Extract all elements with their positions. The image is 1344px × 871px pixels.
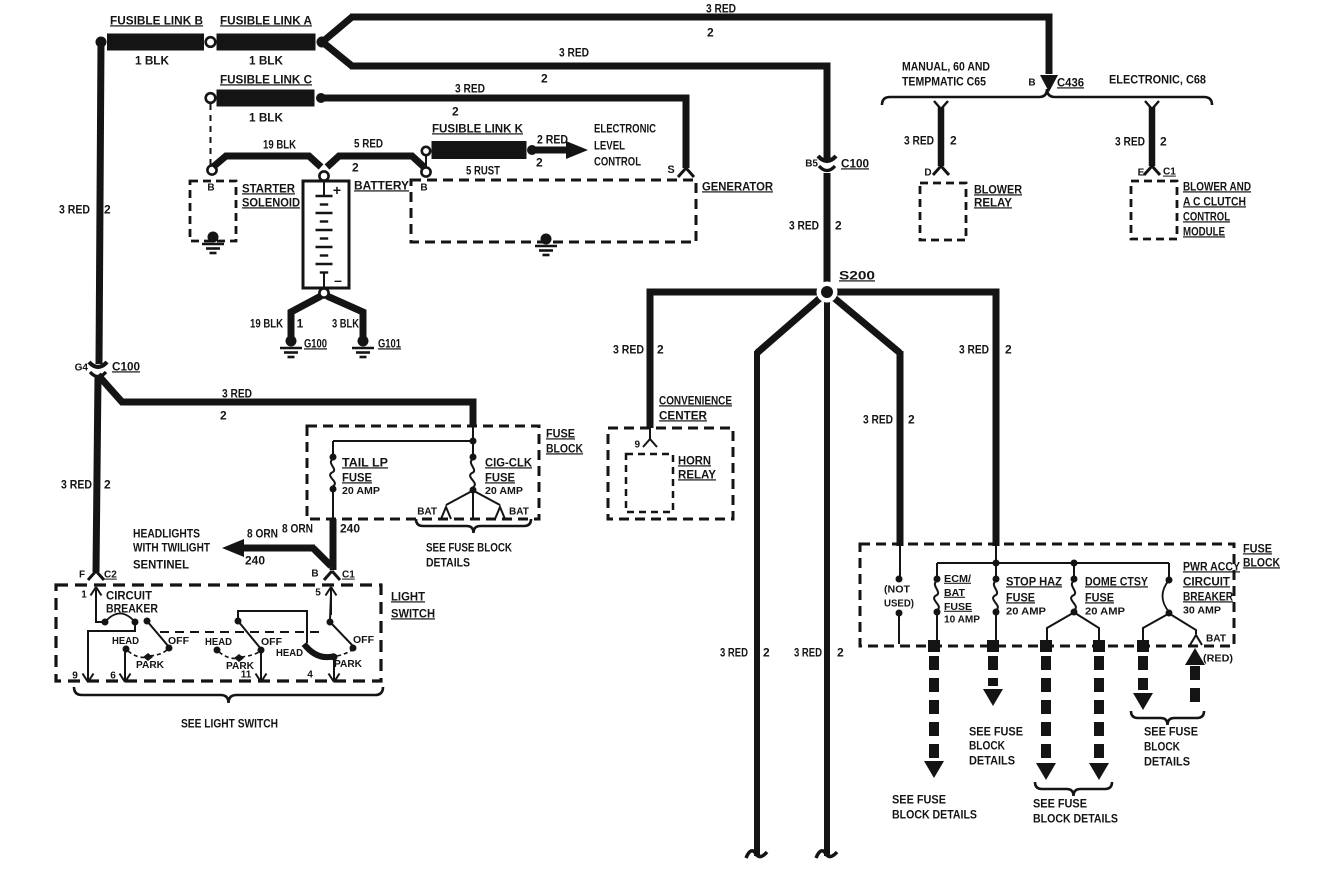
svg-text:240: 240 — [245, 553, 265, 567]
convenience center box — [608, 428, 733, 519]
label 3 RED / 2 right branch — [959, 342, 1012, 356]
cig-clk fuse BAT output forks — [417, 490, 529, 519]
svg-text:B: B — [420, 183, 427, 194]
svg-text:1 BLK: 1 BLK — [135, 53, 169, 67]
svg-text:LIGHT: LIGHT — [391, 589, 426, 603]
svg-text:G4: G4 — [75, 363, 89, 374]
svg-text:20 AMP: 20 AMP — [1006, 607, 1046, 618]
svg-text:FUSIBLE LINK A: FUSIBLE LINK A — [220, 13, 312, 27]
svg-text:HEAD: HEAD — [205, 636, 232, 648]
svg-text:–: – — [334, 272, 342, 288]
svg-text:2: 2 — [1005, 342, 1012, 356]
starter solenoid box — [190, 181, 300, 241]
right section heavy HEAD blade — [276, 644, 335, 659]
cig-clk fuse element — [470, 441, 533, 497]
svg-text:240: 240 — [340, 521, 360, 535]
ground G101 — [352, 336, 401, 358]
battery BAT box and plates — [303, 178, 409, 289]
svg-text:C1: C1 — [1163, 167, 1176, 178]
svg-text:MODULE: MODULE — [1183, 224, 1225, 238]
label 3 RED / 2 on center trunk — [789, 218, 842, 232]
svg-text:9: 9 — [634, 440, 640, 451]
blower and AC clutch control module box — [1131, 179, 1251, 239]
svg-text:4: 4 — [307, 670, 313, 681]
svg-text:PARK: PARK — [136, 659, 164, 671]
label 3 BLK on ground lead — [332, 316, 359, 330]
middle section jumper loop — [238, 611, 307, 643]
svg-text:3 RED: 3 RED — [789, 218, 819, 232]
svg-text:G100: G100 — [304, 336, 327, 350]
wire stub ECM fuse output — [928, 640, 940, 652]
svg-text:DETAILS: DETAILS — [426, 555, 470, 569]
svg-text:3 RED: 3 RED — [61, 477, 92, 491]
svg-text:BAT: BAT — [1206, 634, 1226, 645]
splice S200 — [817, 268, 876, 302]
node: right end of fusible link K — [527, 145, 537, 155]
svg-text:(RED): (RED) — [1203, 654, 1233, 665]
wire: S200 down-right branch to fuse block — [827, 292, 900, 546]
dashed arrow PWR ACCY down — [1133, 656, 1153, 710]
svg-text:BAT: BAT — [509, 507, 529, 518]
label 3 RED / 2 to convenience center — [613, 342, 664, 356]
svg-text:C2: C2 — [104, 570, 117, 581]
wire: thin bus to tail lp fuse — [333, 441, 473, 455]
wire: dashed lead from fusible link C down to starter solenoid — [210, 104, 212, 165]
connector B5 C100 on center trunk — [805, 156, 869, 171]
svg-text:BLOWER: BLOWER — [974, 182, 1022, 196]
svg-text:1 BLK: 1 BLK — [249, 53, 283, 67]
svg-text:(NOT: (NOT — [884, 585, 910, 596]
svg-text:5: 5 — [315, 588, 321, 599]
svg-text:BLOWER AND: BLOWER AND — [1183, 179, 1251, 193]
junction: open circle between links B and A — [206, 37, 216, 47]
svg-text:1 BLK: 1 BLK — [249, 110, 283, 124]
dashed arrow ECM fuse to details — [924, 656, 944, 778]
svg-text:2: 2 — [837, 645, 844, 659]
tail lp fuse element — [330, 454, 389, 497]
terminal 9 fork at horn relay — [634, 428, 657, 451]
wire: 3 RED to blower relay — [934, 101, 948, 166]
brace under PWR ACCY arrows — [1131, 711, 1204, 725]
svg-text:PARK: PARK — [334, 658, 362, 670]
label 3 RED / 2 on G4 branch — [220, 386, 252, 422]
svg-text:WITH TWILIGHT: WITH TWILIGHT — [133, 540, 211, 554]
label 5 RED / 2 — [352, 136, 383, 174]
wire: diagonal from node B down to second 3 RED run — [320, 40, 352, 66]
svg-text:FUSIBLE LINK C: FUSIBLE LINK C — [220, 72, 312, 86]
svg-text:HEAD: HEAD — [112, 635, 139, 647]
label SEE FUSE BLOCK DETAILS for DOME CTSY — [1033, 796, 1118, 825]
svg-text:CIRCUIT: CIRCUIT — [1183, 574, 1231, 588]
svg-text:FUSE: FUSE — [546, 426, 575, 440]
svg-text:DETAILS: DETAILS — [1144, 754, 1190, 768]
label 3 RED / 2 blower relay feed — [904, 133, 957, 147]
wire: second 3 RED run to B5 C100 drop — [350, 66, 827, 160]
label 1 BLK under fusible link A — [249, 53, 283, 67]
wire: S200 left branch to convenience center — [650, 292, 827, 428]
svg-text:FUSE: FUSE — [1006, 590, 1035, 604]
svg-text:HEAD: HEAD — [276, 647, 303, 659]
svg-text:19 BLK: 19 BLK — [263, 137, 296, 151]
junction dot fuse block bus — [470, 438, 477, 445]
svg-text:BREAKER: BREAKER — [1183, 589, 1233, 603]
svg-text:FUSE: FUSE — [1085, 590, 1114, 604]
middle section PARK contact — [219, 652, 259, 672]
svg-text:ECM/: ECM/ — [944, 573, 971, 585]
label 3 RED / 2 left drop — [720, 645, 770, 659]
PWR ACCY circuit breaker element — [1143, 559, 1240, 644]
svg-text:C1: C1 — [342, 570, 355, 581]
svg-text:2 RED: 2 RED — [537, 132, 568, 146]
svg-text:B5: B5 — [805, 159, 818, 170]
svg-text:SEE LIGHT SWITCH: SEE LIGHT SWITCH — [181, 716, 278, 730]
svg-text:20 AMP: 20 AMP — [342, 485, 380, 497]
wire stub STOP HAZ output — [987, 640, 999, 652]
svg-text:A C CLUTCH: A C CLUTCH — [1183, 194, 1246, 208]
svg-text:BAT: BAT — [944, 587, 966, 599]
wire: tail lp fuse output inside fuse block — [332, 489, 334, 519]
svg-text:CENTER: CENTER — [659, 408, 707, 422]
svg-text:3 RED: 3 RED — [559, 45, 589, 59]
svg-text:S200: S200 — [839, 268, 875, 282]
svg-text:2: 2 — [352, 160, 359, 174]
svg-text:HORN: HORN — [678, 453, 711, 467]
battery positive terminal circle — [319, 171, 328, 180]
brace under DOME CTSY arrows — [1035, 782, 1112, 796]
svg-text:CIRCUIT: CIRCUIT — [106, 588, 153, 602]
arrow to electronic level control — [532, 141, 588, 159]
wire: light switch pin 11 path — [241, 652, 267, 682]
wire: center trunk from C100 to S200 — [824, 173, 831, 292]
label 1 BLK under fusible link B — [135, 53, 169, 67]
svg-text:BAT: BAT — [417, 507, 437, 518]
svg-text:BLOCK: BLOCK — [1243, 555, 1280, 569]
label ELECTRONIC LEVEL CONTROL — [594, 121, 656, 168]
svg-text:2: 2 — [536, 155, 543, 169]
arrow: headlights with twilight sentinel branch — [222, 539, 331, 566]
wire stub PWR ACCY left output — [1137, 640, 1149, 652]
svg-text:3 RED: 3 RED — [863, 412, 893, 426]
label 2 RED / 2 on arrow — [536, 132, 568, 169]
svg-text:3 RED: 3 RED — [59, 202, 90, 216]
svg-text:BLOCK DETAILS: BLOCK DETAILS — [1033, 811, 1118, 825]
svg-text:C100: C100 — [112, 359, 140, 373]
wire: diagonal from node B up to top 3 RED run — [320, 17, 352, 44]
svg-text:SEE FUSE: SEE FUSE — [969, 724, 1023, 738]
wire: 3 RED to blower and AC clutch control module — [1145, 101, 1159, 166]
svg-text:3 RED: 3 RED — [613, 342, 644, 356]
horn relay box — [626, 453, 716, 512]
svg-text:8 ORN: 8 ORN — [282, 521, 313, 535]
svg-text:BATTERY: BATTERY — [354, 178, 409, 192]
svg-text:3 RED: 3 RED — [794, 645, 822, 659]
label 5 RUST under fusible link K — [466, 163, 501, 177]
svg-text:SENTINEL: SENTINEL — [133, 557, 189, 571]
svg-text:19 BLK: 19 BLK — [250, 316, 283, 330]
wire: 8 ORN from fuse block to light switch B — [330, 519, 337, 570]
svg-text:3 RED: 3 RED — [959, 342, 989, 356]
light switch box — [56, 585, 435, 681]
label 3 RED / 2 upper left wire — [59, 202, 111, 216]
svg-text:2: 2 — [452, 104, 459, 118]
ground inside starter solenoid — [202, 232, 224, 254]
pin 5 arrow into light switch — [315, 587, 336, 615]
svg-text:3 RED: 3 RED — [455, 81, 485, 95]
wire: 5 RED from battery positive to generator B — [327, 156, 424, 167]
middle switch blade to OFF — [235, 618, 283, 654]
not used terminal — [884, 546, 914, 644]
label 8 ORN / 240 at fuse block exit — [282, 521, 360, 535]
wire: light switch pin 9 path — [72, 624, 135, 682]
left section HEAD contact and pin 6 — [110, 635, 139, 682]
label 3 RED / 2 on second run — [541, 45, 589, 85]
fusible link K — [422, 121, 527, 159]
circuit breaker arc — [96, 614, 151, 626]
wire: left vertical 3 RED from C100 down to light switch F — [96, 376, 98, 572]
svg-text:2: 2 — [950, 133, 957, 147]
wire: 19 BLK from starter solenoid to battery positive — [213, 156, 321, 167]
svg-text:SOLENOID: SOLENOID — [242, 195, 300, 209]
svg-text:CONTROL: CONTROL — [1183, 209, 1230, 223]
label 19 BLK — [263, 137, 296, 151]
terminal B C1 fork at light switch — [311, 569, 355, 581]
svg-text:2: 2 — [835, 218, 842, 232]
right section PARK contact and pin 4 — [307, 650, 362, 682]
label 3 RED / 2 on top run — [706, 1, 736, 39]
svg-text:6: 6 — [110, 671, 116, 682]
wire: fuse block internal bus — [937, 546, 1169, 567]
svg-text:C436: C436 — [1057, 75, 1084, 89]
middle section HEAD contact — [205, 636, 232, 654]
svg-text:HEADLIGHTS: HEADLIGHTS — [133, 526, 200, 540]
svg-text:2: 2 — [104, 202, 111, 216]
svg-text:9: 9 — [72, 671, 78, 682]
label 3 RED / 2 center drop — [794, 645, 844, 659]
label SEE LIGHT SWITCH — [181, 716, 278, 730]
wire: battery negative fork to grounds G100 G101 — [291, 296, 363, 337]
svg-text:2: 2 — [541, 71, 548, 85]
svg-text:C100: C100 — [841, 156, 869, 170]
label B pin of generator — [420, 183, 427, 194]
fusible link B — [107, 13, 204, 50]
svg-text:DETAILS: DETAILS — [969, 753, 1015, 767]
svg-text:2: 2 — [1160, 134, 1167, 148]
node: right end of fusible link C — [316, 93, 326, 103]
wire: 3 RED branch from G4 to fuse block — [98, 375, 473, 427]
right switch pivot and blade to OFF — [327, 594, 375, 652]
dashed arrow DOME CTSY right — [1089, 656, 1109, 780]
terminal: generator S fork — [667, 164, 694, 177]
label 3 RED / 2 down-right branch — [863, 412, 915, 426]
svg-text:8 ORN: 8 ORN — [247, 526, 278, 540]
wire: S200 right branch to fuse block — [827, 292, 996, 546]
wire: S200 down-left branch — [757, 292, 827, 353]
terminal: starter solenoid B open circle — [207, 165, 216, 174]
svg-text:2: 2 — [707, 25, 714, 39]
terminal F C2 fork at light switch — [79, 570, 117, 581]
connector C436 arrow — [1028, 75, 1084, 92]
svg-text:BLOCK: BLOCK — [1144, 739, 1180, 753]
svg-text:RELAY: RELAY — [974, 195, 1012, 209]
svg-text:3 RED: 3 RED — [720, 645, 748, 659]
dashed arrow RED feed up to BAT — [1185, 648, 1233, 708]
svg-text:B: B — [311, 569, 318, 580]
svg-text:B: B — [207, 183, 214, 194]
svg-text:USED): USED) — [884, 599, 914, 610]
svg-text:G101: G101 — [378, 336, 401, 350]
svg-text:5 RED: 5 RED — [354, 136, 383, 150]
svg-text:MANUAL, 60 AND: MANUAL, 60 AND — [902, 59, 990, 73]
svg-text:30 AMP: 30 AMP — [1183, 606, 1221, 617]
svg-text:BLOCK DETAILS: BLOCK DETAILS — [892, 807, 977, 821]
svg-text:PWR ACCY: PWR ACCY — [1183, 559, 1240, 573]
label SEE FUSE BLOCK DETAILS upper — [426, 540, 512, 569]
svg-text:CONTROL: CONTROL — [594, 154, 641, 168]
svg-text:GENERATOR: GENERATOR — [702, 179, 773, 193]
label CIRCUIT BREAKER — [106, 588, 158, 615]
label 8 ORN / 240 on headlight arrow — [245, 526, 278, 567]
svg-text:1: 1 — [297, 316, 304, 330]
svg-text:11: 11 — [241, 670, 252, 681]
fuse block box lower right — [860, 541, 1280, 646]
svg-text:3 RED: 3 RED — [222, 386, 252, 400]
svg-text:SEE FUSE: SEE FUSE — [892, 792, 946, 806]
svg-text:ELECTRONIC, C68: ELECTRONIC, C68 — [1109, 72, 1206, 86]
svg-text:20 AMP: 20 AMP — [485, 485, 523, 497]
DOME CTSY fuse element — [1047, 563, 1148, 644]
svg-text:2: 2 — [220, 408, 227, 422]
STOP HAZ fuse element — [993, 563, 1063, 644]
fuse block box upper — [307, 426, 583, 519]
svg-text:FUSE: FUSE — [1243, 541, 1272, 555]
svg-text:RELAY: RELAY — [678, 467, 716, 481]
svg-text:FUSE: FUSE — [342, 470, 372, 484]
svg-text:DOME CTSY: DOME CTSY — [1085, 574, 1148, 588]
label SEE FUSE BLOCK DETAILS for STOP HAZ — [969, 724, 1023, 767]
brace under light switch — [74, 687, 383, 703]
svg-text:FUSE: FUSE — [944, 601, 972, 613]
svg-text:2: 2 — [908, 412, 915, 426]
svg-text:SEE FUSE: SEE FUSE — [1033, 796, 1087, 810]
svg-text:CIG-CLK: CIG-CLK — [485, 455, 532, 469]
label B pin of starter solenoid — [207, 183, 214, 194]
svg-text:FUSIBLE LINK B: FUSIBLE LINK B — [110, 13, 203, 27]
terminal BAT of PWR ACCY breaker — [1190, 634, 1226, 645]
switch blade left section to OFF — [147, 621, 190, 652]
pin 1 arrow into light switch — [81, 587, 101, 615]
wire: left vertical 3 RED from node A down to connector C100 — [99, 42, 101, 364]
terminal D fork at blower relay — [924, 166, 949, 179]
svg-text:OFF: OFF — [353, 634, 375, 646]
svg-text:FUSIBLE LINK K: FUSIBLE LINK K — [432, 121, 523, 135]
dashed arrow DOME CTSY left — [1036, 656, 1056, 780]
svg-text:3 RED: 3 RED — [706, 1, 736, 15]
svg-text:E: E — [1138, 168, 1145, 179]
wire: third 3 RED run from link C to generator S drop — [321, 98, 686, 168]
svg-text:S: S — [667, 164, 674, 176]
label 1 BLK under fusible link C — [249, 110, 283, 124]
label MANUAL 60 AND TEMPMATIC C65 — [902, 59, 990, 88]
svg-text:3 BLK: 3 BLK — [332, 316, 359, 330]
svg-text:BLOCK: BLOCK — [546, 441, 583, 455]
svg-text:3 RED: 3 RED — [1115, 134, 1145, 148]
svg-text:BLOCK: BLOCK — [969, 738, 1005, 752]
connector G4 C100 on left wire — [75, 359, 141, 376]
svg-text:SEE FUSE BLOCK: SEE FUSE BLOCK — [426, 540, 512, 554]
svg-text:+: + — [333, 182, 341, 198]
svg-text:TAIL LP: TAIL LP — [342, 455, 388, 469]
svg-text:10 AMP: 10 AMP — [944, 615, 980, 626]
label 3 RED / 2 lower left wire — [61, 477, 111, 491]
svg-text:D: D — [924, 168, 931, 179]
fusible link A — [217, 13, 316, 50]
label 3 RED / 2 on third run — [452, 81, 485, 118]
svg-text:FUSE: FUSE — [485, 470, 515, 484]
label ELECTRONIC C68 — [1109, 72, 1206, 86]
svg-text:STOP HAZ: STOP HAZ — [1006, 574, 1062, 588]
wire: link between fusible link K and generator B terminal — [425, 156, 427, 167]
terminal E C1 fork at module — [1138, 166, 1177, 179]
wire: left drop to bottom of page — [746, 351, 767, 858]
wire stub DOME CTSY right output — [1093, 640, 1105, 652]
battery negative terminal circle — [319, 288, 328, 297]
blower relay box — [920, 182, 1022, 240]
mechanical link dashed line — [160, 631, 320, 633]
node A: splice of fusible links B/A and 3 RED feed — [96, 37, 107, 48]
svg-text:B: B — [1028, 78, 1035, 89]
svg-text:SWITCH: SWITCH — [391, 606, 435, 620]
label 19 BLK / 1 on ground lead — [250, 316, 304, 330]
svg-text:20 AMP: 20 AMP — [1085, 607, 1125, 618]
ground inside generator — [535, 234, 557, 256]
svg-text:1: 1 — [81, 590, 87, 601]
wire: S200 center drop to bottom of page — [816, 292, 837, 858]
dashed arrow STOP HAZ to details — [983, 656, 1003, 706]
svg-text:LEVEL: LEVEL — [594, 138, 625, 152]
svg-text:STARTER: STARTER — [242, 181, 295, 195]
svg-text:3 RED: 3 RED — [904, 133, 934, 147]
label 3 RED / 2 module feed — [1115, 134, 1167, 148]
svg-text:5 RUST: 5 RUST — [466, 163, 501, 177]
svg-text:BREAKER: BREAKER — [106, 601, 158, 615]
svg-text:TEMPMATIC C65: TEMPMATIC C65 — [902, 74, 986, 88]
wire: top 3 RED run to C436 drop — [350, 17, 1049, 74]
label SEE FUSE BLOCK DETAILS for PWR ACCY — [1144, 724, 1198, 768]
svg-text:ELECTRONIC: ELECTRONIC — [594, 121, 656, 135]
wire: feed inside fuse block — [472, 426, 474, 441]
generator box — [411, 179, 773, 242]
label SEE FUSE BLOCK DETAILS for ECM — [892, 792, 977, 821]
brace under fuse block BAT terminals — [416, 519, 531, 533]
svg-text:2: 2 — [657, 342, 664, 356]
svg-text:OFF: OFF — [168, 635, 190, 647]
svg-text:2: 2 — [763, 645, 770, 659]
svg-text:CONVENIENCE: CONVENIENCE — [659, 393, 732, 407]
node B: right end of fusible link A — [317, 37, 328, 48]
brace over C65 / C68 split — [882, 89, 1212, 105]
label HEADLIGHTS WITH TWILIGHT SENTINEL — [133, 526, 211, 571]
ground G100 — [280, 336, 327, 358]
wire stub DOME CTSY left output — [1040, 640, 1052, 652]
terminal: generator B open circle — [421, 167, 430, 176]
svg-text:2: 2 — [104, 477, 111, 491]
left section PARK contact — [128, 650, 167, 671]
svg-text:F: F — [79, 570, 85, 581]
fusible link C — [206, 72, 315, 106]
label CONVENIENCE CENTER — [659, 393, 732, 422]
ECM BAT fuse element — [934, 563, 981, 644]
svg-text:SEE FUSE: SEE FUSE — [1144, 724, 1198, 738]
